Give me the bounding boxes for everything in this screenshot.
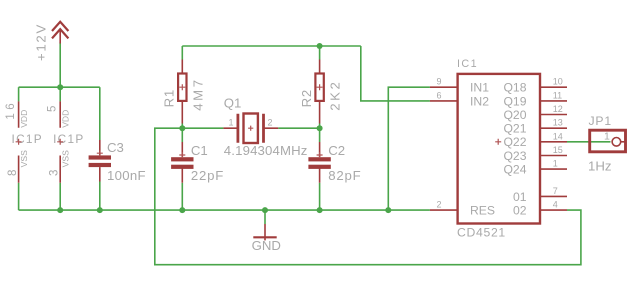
supply symbol +12V — [34, 22, 69, 61]
IC1 pin names — [470, 81, 527, 218]
pin O2 (4) — [540, 209, 567, 211]
svg-text:10: 10 — [553, 77, 563, 87]
svg-text:IC1P: IC1P — [12, 132, 43, 146]
ground symbol GND — [252, 224, 281, 253]
wire feedback loop from crystal node to O2 pin — [155, 128, 581, 265]
svg-text:GND: GND — [252, 238, 281, 253]
junction C1 rail — [179, 207, 185, 213]
wire C3 top drop — [99, 87, 101, 140]
svg-text:13: 13 — [553, 118, 563, 128]
junction C3 rail — [97, 207, 103, 213]
wire VSS2 to ground rail — [59, 183, 61, 210]
pin Q20 (12) — [540, 114, 567, 116]
svg-text:100nF: 100nF — [107, 168, 146, 183]
wire R2 top — [319, 46, 321, 60]
pin IN2 (6) — [430, 100, 458, 102]
svg-text:4: 4 — [553, 200, 558, 210]
svg-text:12: 12 — [553, 104, 563, 114]
wire VDD1 drop — [18, 87, 20, 101]
IC1 pin numbers right — [553, 77, 563, 210]
wire IN1 net drop to ground rail — [388, 87, 430, 210]
svg-text:VDD: VDD — [61, 110, 71, 128]
pin IN1 (9) — [430, 86, 458, 88]
connector JP1 1Hz — [588, 114, 626, 174]
svg-text:+12V: +12V — [34, 23, 49, 61]
svg-text:1: 1 — [553, 159, 558, 169]
wire GND stub — [264, 210, 266, 224]
crystal Q1 4.194304MHz — [223, 96, 307, 158]
wire R2 bottom — [319, 124, 321, 129]
svg-text:15: 15 — [553, 145, 563, 155]
junction GND rail — [262, 207, 268, 213]
svg-text:VSS: VSS — [61, 150, 71, 167]
svg-text:8: 8 — [7, 170, 19, 176]
svg-text:11: 11 — [553, 90, 562, 100]
svg-text:C3: C3 — [107, 140, 124, 155]
pin Q18 (10) — [540, 86, 567, 88]
wire R1 top — [181, 46, 183, 60]
svg-text:IC1: IC1 — [457, 58, 478, 70]
power symbol IC1P (pins 5/3) — [46, 101, 84, 182]
pin Q21 (13) — [540, 127, 567, 129]
svg-text:Q22: Q22 — [503, 135, 526, 149]
resistor R1 4M7 — [162, 60, 206, 124]
wire C1 bottom — [181, 183, 183, 210]
svg-text:Q20: Q20 — [503, 108, 526, 122]
svg-text:3: 3 — [49, 170, 61, 176]
svg-text:C1: C1 — [191, 143, 208, 158]
junction VSS2 rail — [57, 207, 63, 213]
svg-text:01: 01 — [513, 190, 527, 204]
svg-text:C2: C2 — [328, 143, 345, 158]
svg-text:4M7: 4M7 — [190, 77, 205, 110]
pin Q19 (11) — [540, 100, 567, 102]
wire +12V drop to rail — [59, 43, 61, 88]
junction R2 top — [317, 43, 323, 49]
svg-text:16: 16 — [5, 100, 17, 120]
wire JP1 to Q22 pin 14 — [567, 141, 611, 143]
junction IN1 rail — [385, 207, 391, 213]
svg-text:Q24: Q24 — [503, 163, 526, 177]
svg-text:IN1: IN1 — [470, 81, 489, 95]
pin Q23 (15) — [540, 155, 567, 157]
svg-text:02: 02 — [513, 204, 527, 218]
svg-text:9: 9 — [436, 77, 441, 87]
svg-text:7: 7 — [553, 186, 558, 196]
op IC1 CD4521 box — [457, 58, 540, 239]
svg-text:VSS: VSS — [19, 150, 29, 167]
svg-text:Q19: Q19 — [503, 94, 526, 108]
svg-text:1: 1 — [604, 131, 610, 143]
wire C2 top — [319, 128, 321, 142]
svg-text:Q1: Q1 — [224, 96, 242, 111]
svg-text:5: 5 — [46, 106, 58, 112]
wire R1 bottom — [181, 124, 183, 129]
junction crystal right node — [317, 125, 323, 131]
svg-text:1Hz: 1Hz — [588, 159, 611, 174]
svg-text:Q18: Q18 — [503, 81, 526, 95]
capacitor C3 100nF — [89, 140, 146, 183]
pin Q22 (14) — [540, 141, 567, 143]
svg-text:1: 1 — [229, 118, 234, 128]
junction C2 rail — [317, 207, 323, 213]
svg-text:22pF: 22pF — [191, 168, 224, 183]
svg-text:2: 2 — [268, 118, 273, 128]
svg-text:RES: RES — [470, 204, 495, 218]
svg-text:JP1: JP1 — [589, 114, 612, 128]
svg-text:CD4521: CD4521 — [457, 225, 506, 239]
wire IN2 net from top rail — [361, 46, 430, 101]
power symbol IC1P (pins 16/8) — [5, 100, 43, 183]
svg-text:R1: R1 — [162, 89, 177, 107]
wire C3 bottom to ground rail — [99, 182, 101, 211]
IC1 origin mark — [495, 139, 501, 145]
wire C2 bottom — [319, 183, 321, 210]
wire oscillator top rail — [182, 45, 360, 47]
wire VDD rail — [19, 86, 100, 88]
svg-text:2K2: 2K2 — [328, 80, 343, 111]
junction +12V rail — [57, 84, 63, 90]
capacitor C1 22pF — [171, 142, 224, 183]
IC1 pin numbers left — [436, 77, 441, 210]
svg-text:VDD: VDD — [19, 110, 29, 128]
svg-text:4.194304MHz: 4.194304MHz — [224, 143, 308, 158]
pin O1 (7) — [540, 195, 567, 197]
wire VSS1 to ground rail — [18, 183, 20, 210]
capacitor C2 82pF — [308, 142, 361, 183]
junction crystal left node — [179, 125, 185, 131]
wire crystal right — [278, 127, 319, 129]
svg-text:R2: R2 — [299, 89, 314, 107]
svg-text:2: 2 — [436, 200, 441, 210]
svg-text:IC1P: IC1P — [53, 132, 84, 146]
pin RES (2) — [430, 209, 458, 211]
wire ground rail — [19, 209, 430, 211]
wire VDD2 drop — [59, 87, 61, 101]
wire crystal left — [182, 127, 223, 129]
pin Q24 (1) — [540, 168, 567, 170]
svg-text:Q23: Q23 — [503, 149, 526, 163]
svg-text:6: 6 — [436, 90, 441, 100]
svg-text:IN2: IN2 — [470, 94, 489, 108]
resistor R2 2K2 — [299, 60, 343, 124]
svg-text:Q21: Q21 — [503, 122, 526, 136]
wire C1 top — [181, 128, 183, 142]
svg-text:82pF: 82pF — [328, 168, 361, 183]
svg-text:14: 14 — [553, 131, 563, 141]
